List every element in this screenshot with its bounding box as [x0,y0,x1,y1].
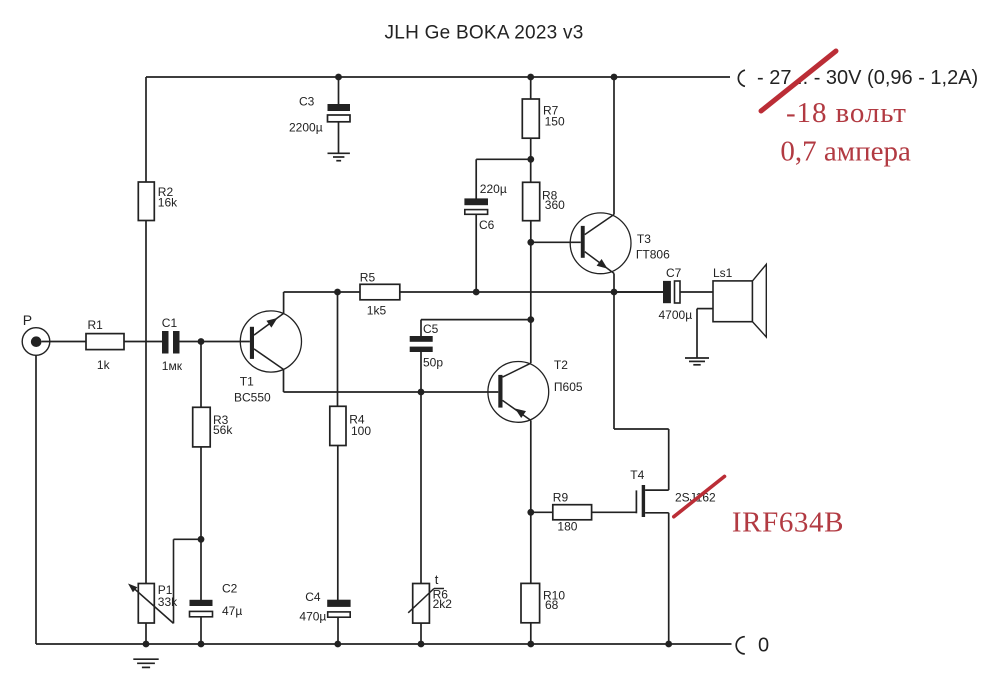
capacitor C4 bottom plate [328,612,351,617]
svg-text:220µ: 220µ [480,182,507,196]
junction: C6 tap between R7 and R8 [527,156,534,163]
transistor T2 emitter lead [503,400,531,420]
transistor T2 circle [488,362,549,423]
resistor R2 [138,182,154,221]
svg-text:T1: T1 [240,375,254,389]
wire: speaker return down to ground [696,309,698,358]
connector P center pin [31,336,42,347]
junction: output node at T3 emitter [611,289,618,296]
junction: C4 on rail [334,641,341,648]
svg-text:360: 360 [545,198,565,212]
wire: P1 wiper vertical [173,539,175,623]
resistor R3 [193,407,211,447]
wire: C3 to ground [338,122,340,154]
transistor T1 base bar [250,327,254,359]
svg-text:P: P [23,312,32,328]
wire: T2 emitter down to R9 node [530,420,532,512]
junction: R9 node [527,509,534,516]
ground symbol under speaker [685,357,709,359]
junction: C6 on feedback line [473,289,480,296]
wire: C5 top node left [421,319,531,321]
transistor T2 emitter arrow [515,409,526,419]
junction: C2 on rail [198,641,205,648]
junction: R7 column on top rail [527,74,534,81]
wire: P1 bottom to rail [145,623,147,644]
capacitor C5 top plate [410,336,433,342]
wire: C5 bottom to driver line [420,352,422,392]
transistor T3 emitter lead [585,252,614,274]
wire: C6 bottom down to feedback line [475,214,477,292]
capacitor C5 bottom plate [410,347,433,352]
capacitor C4 top plate [327,600,350,607]
junction: C5 top node [527,316,534,323]
wire: negative supply top rail [146,76,730,78]
wire: R7 to R8 [530,138,532,182]
wire: down to T4 source [668,429,670,490]
wire: speaker return left [697,308,713,310]
wire: base of T3 [531,241,581,243]
svg-text:Ls1: Ls1 [713,266,733,280]
transistor T3 base bar [581,226,585,258]
wire: down to C5 [420,320,422,337]
transistor T3 circle [570,213,631,274]
wire: rail down to R7 [530,77,532,99]
junction: T4 drain on rail [665,641,672,648]
svg-text:2k2: 2k2 [433,597,453,611]
svg-text:C2: C2 [222,581,238,595]
wire: T1 collector line to T2 base [284,391,499,393]
junction: R6 on rail [418,641,425,648]
speaker Ls1 box [713,281,753,322]
capacitor C1 left plate [162,331,169,354]
potentiometer P1 body [138,584,154,624]
wire: C7 to speaker [680,291,713,293]
mosfet T4 drain lead [645,512,669,514]
wire: tap left toward C6 [476,158,531,160]
transistor T2 collector lead [503,363,531,377]
transistor T3 emitter arrow [597,259,608,269]
mosfet T4 gate bar [635,490,637,513]
transistor T3 collector lead [585,215,614,235]
junction: R10 on rail [527,641,534,648]
wire: P1 wiper to R3/C2 node [174,538,202,540]
svg-text:100: 100 [351,424,371,438]
svg-text:470µ: 470µ [299,610,326,624]
ground symbol under C3 [328,152,350,154]
wire: output node to C7 [614,291,663,293]
svg-text:IRF634B: IRF634B [732,507,844,539]
terminal: zero volt connector arc [736,637,745,654]
svg-text:C7: C7 [666,266,682,280]
wire: R10 to bottom rail [530,623,532,644]
wire: T4 drain down to bottom rail [668,513,670,644]
svg-text:1k: 1k [97,358,111,372]
terminal: negative supply connector arc [738,70,745,86]
transistor T1 emitter lead [254,313,284,335]
mosfet T4 source lead [645,489,669,491]
thermistor R6 diagonal top bar [434,588,444,590]
wire: C1 to T1 base [180,341,250,343]
wire: output jog right [614,428,669,430]
resistor R9 [553,505,592,520]
svg-text:R9: R9 [553,490,569,504]
svg-text:-18 вольт: -18 вольт [786,97,907,129]
wire: driver line down to R6 [420,392,422,584]
wire: R9 to T4 gate [592,511,637,513]
wire: T3 emitter down to output node [613,273,615,292]
svg-text:BC550: BC550 [234,390,271,404]
svg-text:ГТ806: ГТ806 [636,248,670,262]
svg-text:150: 150 [545,115,565,129]
red slash over T4 [674,476,725,516]
wire: R4 down to C4 [337,446,339,601]
wire: rail down to T3 collector [613,77,615,215]
potentiometer P1 arrow head [128,584,137,593]
transistor T2 base bar [498,375,502,408]
resistor R7 [522,99,539,138]
junction: wiper on R3-C2 line [198,536,205,543]
transistor T1 circle [240,311,301,372]
svg-text:47µ: 47µ [222,604,242,618]
capacitor C1 right plate [173,331,180,354]
svg-text:1мк: 1мк [162,359,183,373]
potentiometer P1 wiper arrow diagonal [131,586,174,624]
wire: T3 base node down to T2 collector [530,242,532,363]
wire: R9 node down to R10 [530,512,532,583]
junction: T3 collector on top rail [611,74,618,81]
svg-text:T3: T3 [637,232,651,246]
svg-text:0,7 ампера: 0,7 ампера [780,135,911,167]
svg-text:4700µ: 4700µ [659,308,693,322]
svg-text:C5: C5 [423,322,439,336]
wire: emitter corner to R5 [284,291,360,293]
wire: R5 to output node and C7 [400,291,663,293]
resistor R4 [330,406,346,445]
wire: C4 to bottom rail [337,617,339,644]
svg-text:t: t [435,572,439,587]
capacitor C2 bottom plate [190,611,213,616]
wire: R3 to C2 [200,447,202,600]
wire: base node down to R3 [200,342,202,408]
svg-text:П605: П605 [554,380,583,394]
resistor R10 [521,583,540,622]
junction: C3 on top rail [335,74,342,81]
capacitor C3 top plate [328,104,351,111]
resistor R8 [523,182,540,220]
mosfet T4 channel bar [642,485,645,517]
capacitor C6 top plate [464,198,488,205]
wire: R1 to C1 [124,341,162,343]
thermistor R6 body [413,584,430,624]
svg-text:C1: C1 [162,316,178,330]
wire: R8 down to T3 base node [530,221,532,243]
svg-text:16k: 16k [158,195,178,209]
wire: input pin to R1 [42,341,87,343]
junction: T3 base node [527,239,534,246]
thermistor R6 diagonal [408,589,434,613]
svg-text:T2: T2 [554,358,568,372]
capacitor C2 top plate [190,600,213,606]
capacitor C6 bottom plate [465,210,488,215]
svg-text:2200µ: 2200µ [289,120,323,134]
red slash over supply label [761,51,836,111]
svg-text:1k5: 1k5 [367,304,387,318]
wire: C2 to bottom rail [200,617,202,644]
wire: rail down to R2 [145,77,147,183]
svg-text:0: 0 [758,635,769,657]
svg-text:56k: 56k [213,423,233,437]
svg-text:C4: C4 [305,590,321,604]
wire: T1 emitter up to feedback line [283,292,285,313]
svg-text:180: 180 [557,519,577,533]
speaker Ls1 horn [753,264,767,337]
junction: C5 bottom node [418,389,425,396]
wire: feedback node down to R4 [337,292,339,407]
wire: down to C6 top [475,159,477,198]
wire: zero volt bottom rail [36,643,732,645]
wire: R6 to bottom rail [420,623,422,644]
svg-text:R5: R5 [360,271,376,285]
capacitor C7 left plate [663,281,671,303]
svg-text:C3: C3 [299,95,315,109]
svg-text:C6: C6 [479,218,495,232]
wire: rail down to C3 [338,77,340,105]
capacitor C3 bottom plate [328,115,351,122]
svg-text:R1: R1 [88,318,104,332]
resistor R5 [360,284,400,300]
wire: R2 down to P1 [145,221,147,585]
svg-text:33k: 33k [158,595,178,609]
wire: T1 collector down to driver line [283,369,285,392]
wire: R9 node to R9 [531,511,553,513]
junction: C1/R3 node on base line [198,338,205,345]
capacitor C7 right plate [675,281,681,303]
junction: P1 ground on rail [143,641,150,648]
ground symbol under bottom rail [133,658,158,660]
connector P outer circle [22,328,50,356]
junction: R4 node on feedback line [334,289,341,296]
svg-text:JLH Ge BOKA 2023 v3: JLH Ge BOKA 2023 v3 [385,23,584,44]
svg-text:50p: 50p [423,355,443,369]
svg-text:T4: T4 [630,468,644,482]
resistor R1 [86,334,124,350]
transistor T1 collector lead [254,349,284,370]
transistor T1 emitter arrow [266,318,277,328]
svg-text:68: 68 [545,598,559,612]
wire: input ground drop from P [35,355,37,644]
wire: output node down [613,292,615,429]
